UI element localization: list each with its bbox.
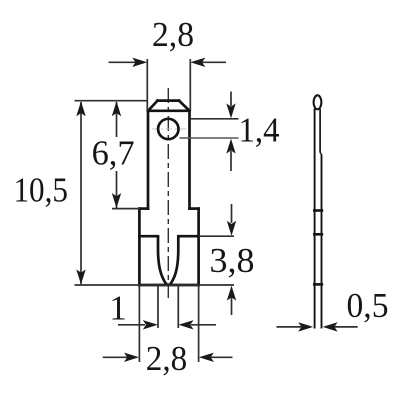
side view tip oval bbox=[314, 95, 322, 109]
side view tick at shoulder level bbox=[313, 209, 323, 212]
tab top extension line bbox=[75, 100, 149, 102]
base right extension line bbox=[198, 285, 200, 362]
side view right edge lower bbox=[321, 155, 323, 329]
top 2,8 dim left shaft bbox=[109, 61, 137, 63]
bottom 2,8 right arrowhead bbox=[199, 353, 214, 362]
1,4 down arrow shaft bbox=[230, 92, 232, 107]
shoulder extension line bbox=[112, 208, 140, 210]
1,4 up arrow shaft bbox=[230, 151, 232, 171]
3,8 down arrow shaft bbox=[231, 204, 233, 223]
base left extension line bbox=[138, 285, 140, 362]
base left side bbox=[138, 209, 141, 285]
hole (1,4 dia) bbox=[158, 119, 178, 139]
0,5 left arrowhead bbox=[298, 322, 313, 331]
1 dim left shaft bbox=[118, 324, 145, 326]
svg-text:1: 1 bbox=[109, 289, 127, 328]
hole bottom reference line bbox=[180, 137, 239, 139]
slot top left segment bbox=[139, 235, 158, 238]
6,7 dim line bbox=[116, 102, 118, 208]
svg-text:10,5: 10,5 bbox=[13, 171, 68, 210]
6,7 down arrowhead bbox=[112, 193, 121, 208]
svg-text:2,8: 2,8 bbox=[146, 339, 188, 378]
tab right chamfer bbox=[179, 101, 190, 111]
svg-text:1,4: 1,4 bbox=[239, 111, 280, 150]
slot top right segment bbox=[178, 235, 198, 238]
base bottom edge bbox=[139, 284, 198, 287]
1 dim right arrowhead bbox=[179, 320, 194, 329]
bottom 2,8 left arrowhead bbox=[124, 353, 139, 362]
svg-text:2,8: 2,8 bbox=[152, 15, 194, 54]
slot U-notch bbox=[158, 236, 178, 285]
1 dim right shaft bbox=[191, 324, 216, 326]
1,4 down arrowhead bbox=[226, 103, 235, 118]
svg-text:3,8: 3,8 bbox=[210, 241, 255, 280]
top 2,8 dim right shaft bbox=[201, 61, 226, 63]
10,5 down arrowhead bbox=[76, 269, 85, 284]
svg-text:0,5: 0,5 bbox=[347, 286, 389, 325]
tab left side bbox=[147, 111, 150, 209]
side view right edge upper bbox=[319, 109, 321, 153]
top 2,8 left extension line bbox=[146, 59, 148, 111]
1,4 up arrowhead bbox=[226, 139, 235, 154]
slot left extension line bbox=[157, 285, 159, 328]
svg-text:6,7: 6,7 bbox=[92, 134, 135, 173]
tab top edge bbox=[158, 99, 180, 102]
3,8 top extension line bbox=[199, 235, 234, 237]
label 6,7 white backing bbox=[92, 137, 136, 171]
side view left edge bbox=[314, 109, 316, 329]
3,8 up arrow shaft bbox=[231, 297, 233, 315]
0,5 dim right shaft bbox=[334, 326, 358, 328]
3,8 up arrowhead bbox=[227, 286, 236, 301]
3,8 down arrowhead bbox=[227, 221, 236, 236]
vertical centerline of front view bbox=[167, 88, 169, 298]
tab left chamfer bbox=[148, 101, 158, 111]
top 2,8 right extension line bbox=[189, 59, 191, 111]
side view tick at bottom level bbox=[313, 283, 323, 286]
bottom extension line bbox=[75, 284, 235, 286]
tab right side bbox=[188, 111, 191, 209]
horizontal centerline through hole bbox=[152, 128, 186, 130]
bottom 2,8 dim left shaft bbox=[103, 356, 127, 358]
chamfer base line bbox=[148, 109, 190, 112]
right shoulder step bbox=[190, 207, 199, 210]
base right side bbox=[197, 209, 200, 285]
0,5 right arrowhead bbox=[323, 322, 338, 331]
side view right edge step bbox=[320, 153, 321, 155]
6,7 up arrowhead bbox=[112, 101, 121, 116]
hole top reference line bbox=[190, 118, 239, 120]
slot right extension line bbox=[177, 285, 179, 328]
side view tick at slot-top level bbox=[313, 233, 323, 236]
top 2,8 right arrowhead bbox=[190, 58, 205, 67]
top 2,8 left arrowhead bbox=[132, 58, 147, 67]
10,5 dim line bbox=[80, 102, 82, 284]
10,5 up arrowhead bbox=[76, 101, 85, 116]
left shoulder step bbox=[139, 207, 148, 210]
1 dim left arrowhead bbox=[143, 320, 158, 329]
0,5 dim left shaft bbox=[277, 326, 302, 328]
bottom 2,8 dim right shaft bbox=[211, 356, 233, 358]
